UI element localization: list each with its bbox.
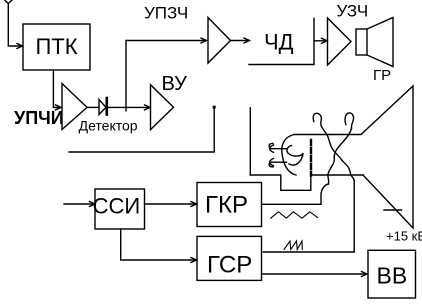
wire GKR to vertical deflection coil with curl xyxy=(262,184,329,204)
wire under ChD to UZCh input xyxy=(249,19,314,65)
wire VU output down and left xyxy=(69,108,214,153)
node junction tick xyxy=(125,107,127,110)
heater lead arrow lower xyxy=(270,161,287,163)
svg-text:УПЗЧ: УПЗЧ xyxy=(144,4,188,23)
grid dashed electrode xyxy=(310,140,312,176)
CRT neck bottom with notch xyxy=(250,175,363,190)
wire diode to VU amp xyxy=(108,106,150,108)
antenna xyxy=(4,0,14,4)
CRT funnel and screen xyxy=(294,86,413,228)
arrow GSR to VV xyxy=(262,273,367,275)
anode lead +15kV xyxy=(384,209,402,211)
svg-text:ПТК: ПТК xyxy=(35,34,77,59)
box ГСР xyxy=(197,236,262,280)
wire SSI down to GSR xyxy=(121,229,196,260)
wire UPZCH to ChD arrow xyxy=(231,40,250,42)
wire GSR to horizontal deflection coil xyxy=(263,181,354,252)
op-amp ВУ (video amp triangle) xyxy=(151,85,174,130)
svg-text:ССИ: ССИ xyxy=(93,194,141,219)
coil squiggle A top curl xyxy=(313,113,321,126)
box ВВ xyxy=(368,250,416,298)
coil squiggle B crossing down-left xyxy=(328,128,352,184)
op-amp УПЗЧ (sound IF amp triangle) xyxy=(208,18,231,64)
wire UPCHI to diode xyxy=(87,106,99,108)
coil squiggle A crossing down-right xyxy=(321,126,354,181)
heater lead arrow upper xyxy=(270,148,288,150)
svg-text:ГСР: ГСР xyxy=(207,252,252,279)
svg-text:ВУ: ВУ xyxy=(162,73,188,95)
svg-text:УПЧИ: УПЧИ xyxy=(14,108,64,128)
box ССИ xyxy=(95,189,145,229)
wire junction up to UPZCH xyxy=(126,41,206,108)
arrow into UZCh xyxy=(314,40,327,42)
electron gun cathode inner curve xyxy=(287,146,303,166)
speaker ГР horn xyxy=(367,18,393,67)
svg-text:Детектор: Детектор xyxy=(79,118,138,134)
svg-text:ГКР: ГКР xyxy=(205,192,248,219)
svg-text:ЧД: ЧД xyxy=(264,30,294,55)
waveform sawtooth line frequency xyxy=(271,212,318,218)
svg-text:+15 кВ: +15 кВ xyxy=(386,229,422,244)
speaker ГР body xyxy=(356,29,367,55)
svg-text:УЗЧ: УЗЧ xyxy=(337,2,369,21)
op-amp УЗЧ (audio amp triangle) xyxy=(328,18,352,65)
op-amp УПЧИ (IF amplifier triangle) xyxy=(62,84,87,130)
diode VD detector xyxy=(99,100,106,115)
wire SSI to GKR xyxy=(145,203,197,205)
svg-text:ВВ: ВВ xyxy=(377,263,408,289)
box ПТК xyxy=(23,24,90,70)
wire antenna to PTK xyxy=(8,4,22,47)
node dot VU output xyxy=(213,106,216,109)
electron gun envelope xyxy=(282,135,296,176)
svg-text:ГР: ГР xyxy=(373,67,391,84)
waveform sawtooth frame frequency xyxy=(284,241,302,250)
wire PTK to UPCHI amp xyxy=(53,70,60,107)
coil squiggle B top curl xyxy=(345,113,353,128)
wire video to CRT cathode xyxy=(249,108,251,175)
arrow into SSI xyxy=(64,203,94,205)
box ГКР xyxy=(197,183,262,227)
